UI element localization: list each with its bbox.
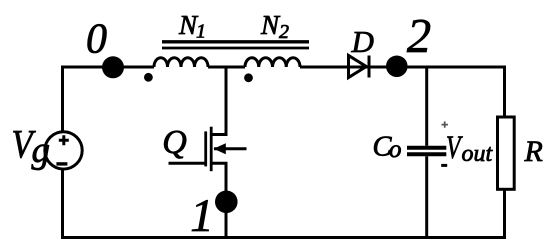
svg-text:o: o: [389, 136, 402, 163]
svg-text:g: g: [32, 130, 51, 171]
svg-text:R: R: [524, 135, 543, 168]
svg-text:D: D: [351, 24, 374, 59]
svg-text:out: out: [462, 141, 494, 167]
svg-text:Q: Q: [162, 124, 187, 161]
svg-text:N: N: [260, 10, 281, 40]
svg-text:2: 2: [407, 10, 431, 63]
svg-text:1: 1: [196, 21, 206, 43]
svg-text:0: 0: [86, 17, 107, 63]
svg-text:2: 2: [279, 21, 289, 43]
svg-text:1: 1: [190, 190, 214, 242]
